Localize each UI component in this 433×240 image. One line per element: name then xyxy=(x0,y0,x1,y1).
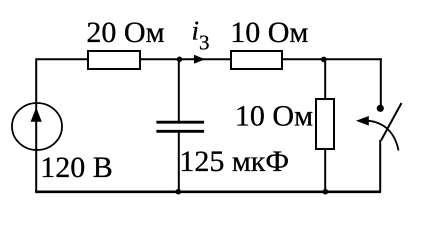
node C junction dot (bottom capacitor) xyxy=(176,189,182,195)
svg-text:125 мкФ: 125 мкФ xyxy=(179,145,289,178)
switch SW motion arrowhead xyxy=(356,116,369,126)
current arrow i3 xyxy=(194,55,205,64)
wire capacitor branch upper xyxy=(178,59,180,122)
switch SW motion arc xyxy=(364,121,399,151)
wire switch branch upper xyxy=(380,58,382,110)
svg-text:10 Ом: 10 Ом xyxy=(235,100,313,133)
wire R3 branch xyxy=(324,59,326,192)
wire capacitor branch lower xyxy=(178,131,180,192)
wire switch branch lower xyxy=(379,140,381,192)
switch SW contact dot xyxy=(377,105,384,112)
svg-text:120 В: 120 В xyxy=(40,151,113,184)
svg-text:20 Ом: 20 Ом xyxy=(86,16,164,49)
node A junction dot (top capacitor) xyxy=(177,57,183,63)
node D junction dot (bottom R3) xyxy=(323,189,329,195)
voltage source E1 circle xyxy=(12,103,62,150)
capacitor C1 plate top xyxy=(156,121,204,124)
capacitor C1 plate bottom xyxy=(156,130,204,133)
resistor R1 20 Ом xyxy=(88,51,140,69)
wire top (node 1 to node 2) xyxy=(36,58,382,60)
switch SW blade xyxy=(381,103,402,141)
wire bottom xyxy=(35,191,381,194)
node B junction dot (top R3) xyxy=(321,57,327,63)
resistor R3 10 Ом xyxy=(316,99,334,149)
resistor R2 10 Ом xyxy=(231,51,282,69)
voltage source E1 arrow xyxy=(31,108,42,122)
wire left branch xyxy=(35,58,37,192)
svg-text:10 Ом: 10 Ом xyxy=(230,16,308,49)
